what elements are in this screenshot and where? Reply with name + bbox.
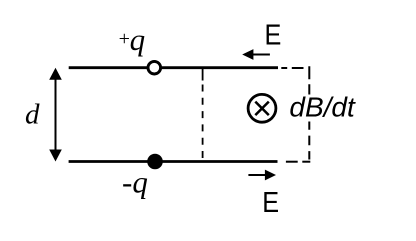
svg-text:q: q — [130, 22, 146, 57]
svg-text:d: d — [25, 98, 40, 130]
label dB/dt (with white backing over dashed line) — [288, 91, 359, 122]
svg-text:E: E — [265, 18, 282, 51]
arrow E top (pointing left) — [242, 49, 270, 60]
dashed line middle vertical (first dash) — [202, 67, 204, 81]
dashed line bottom edge segment 1 — [286, 161, 298, 163]
dashed line middle vertical (main run) — [202, 85, 204, 159]
dashed line right vertical upper — [308, 66, 310, 97]
node -q charge (filled circle) — [147, 154, 163, 170]
svg-text:E: E — [262, 185, 279, 218]
dimension arrow d (double-headed) — [49, 68, 62, 162]
top plate (wire) — [69, 66, 278, 69]
arrow E bottom (pointing right) — [248, 170, 276, 181]
svg-text:-q: -q — [122, 165, 148, 200]
bottom plate (wire) — [69, 160, 278, 163]
dashed line top edge segment 1 — [281, 67, 287, 69]
dashed line right vertical lower — [308, 120, 310, 159]
dashed line bottom edge segment 2 (corner) — [302, 161, 310, 163]
symbol B into page (circle with cross) — [248, 94, 276, 122]
svg-text:dB/dt: dB/dt — [289, 91, 356, 122]
node +q charge (open circle) — [148, 61, 161, 74]
dashed line top edge segment 2 — [292, 67, 304, 69]
